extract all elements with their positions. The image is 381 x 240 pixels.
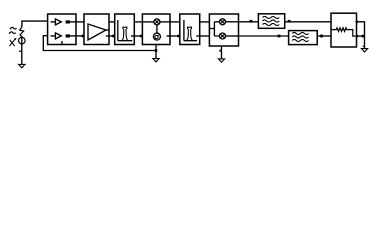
junction dot — [278, 35, 281, 38]
AC tilde 2 — [9, 32, 16, 34]
op-amp triangle A1 — [88, 24, 106, 40]
block 9 box (load / termination) — [331, 13, 357, 47]
mixer M3 bottom — [220, 33, 226, 39]
junction dot — [112, 35, 115, 38]
junction dot — [140, 35, 143, 38]
ground stem block6 — [221, 46, 223, 59]
splitter wires — [209, 22, 219, 36]
output wires to ground rail — [357, 22, 365, 49]
filter icon axis — [183, 20, 185, 41]
wire source output to block 1 — [22, 21, 48, 27]
block 1 box (dual limiter/diodes) — [48, 14, 76, 45]
wire block3 to block4 — [134, 21, 142, 23]
ground rail wire bottom left — [43, 36, 156, 51]
wave lines — [263, 16, 280, 18]
ground (right) — [361, 49, 367, 52]
filter icon axis — [117, 20, 119, 41]
ground (block4) — [153, 59, 159, 62]
arrow cross stroke — [10, 40, 15, 46]
mixer M1 — [142, 21, 154, 23]
filter icon pulse — [122, 27, 129, 41]
wire block8 to block9 — [317, 35, 331, 37]
source stem wire — [21, 36, 23, 64]
wire block2 to block3 — [109, 21, 115, 23]
mixer M2 top — [220, 19, 226, 25]
ground stem block4 — [155, 45, 157, 59]
diode D1 row top — [51, 21, 56, 23]
AC tilde 1 — [10, 27, 17, 29]
resistor R1 — [331, 28, 357, 36]
wire block7 to block9 — [285, 21, 331, 23]
source circle — [19, 37, 26, 44]
wire block6 to block7 (I path) — [239, 21, 259, 23]
block 7 box (lowpass filter I) — [258, 14, 284, 28]
minus tick — [19, 50, 22, 52]
block 2 box (amplifier) — [84, 14, 109, 45]
filter icon baseline — [184, 40, 197, 42]
filter icon pulse — [186, 27, 193, 41]
junction dot — [320, 35, 323, 38]
block 5 box (bandpass filter 2) — [180, 14, 200, 45]
junction dot — [155, 49, 158, 52]
oscillator O1 — [153, 33, 160, 40]
block 8 box (lowpass filter Q) — [289, 31, 318, 45]
stem tick — [363, 45, 365, 47]
wire block3 to block4 bottom — [131, 35, 143, 37]
wire block4 to block5 bottom — [167, 35, 180, 37]
filter icon baseline — [118, 40, 133, 42]
ground (block6) — [218, 59, 224, 62]
junction dot — [288, 20, 291, 23]
wire block1 to block2 bottom — [76, 35, 84, 37]
wire block1 to block2 top — [76, 21, 84, 23]
wire block2 to block3 bottom — [106, 35, 115, 37]
arrowhead on through output — [355, 20, 358, 23]
block1 bottom port stub — [61, 41, 63, 45]
junction dot — [250, 20, 253, 23]
junction dot on stem — [220, 50, 222, 52]
block 6 box (I/Q demodulator) — [209, 14, 238, 46]
junction dot — [177, 35, 180, 38]
arrowhead on output — [355, 35, 358, 38]
junction dot gap1 bottom — [82, 35, 85, 38]
wave lines — [292, 32, 308, 34]
wire block5 to block6 — [200, 21, 210, 23]
wire block5 to block6 bottom — [196, 35, 209, 37]
arrow stroke with head — [9, 39, 15, 46]
junction dot — [362, 35, 365, 38]
block 4 box (mixer with LO) — [142, 14, 170, 45]
source zigzag chirp stroke — [20, 27, 24, 37]
ground (source) — [19, 64, 25, 67]
amp output lead — [106, 29, 109, 31]
wire block4 to block5 — [170, 21, 180, 23]
block 3 box (bandpass filter) — [115, 14, 135, 45]
source V1 sine/chirp generator — [9, 21, 47, 68]
diode D2 row bottom — [51, 35, 56, 37]
LO stem — [156, 25, 158, 33]
wire block6 to block8 (Q path) — [239, 35, 289, 37]
